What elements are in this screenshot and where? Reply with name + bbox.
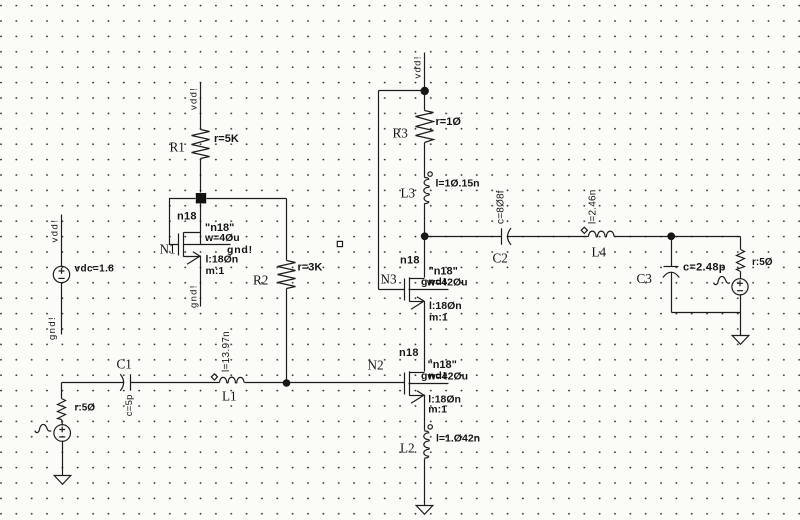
wire N2 source to L2 <box>424 395 426 431</box>
wire resistor to source PORT0 <box>62 420 63 426</box>
wire node to N1 gate <box>170 199 196 245</box>
pin marker L1 <box>211 374 217 380</box>
svg-text:r=1Ø: r=1Ø <box>436 116 462 128</box>
pin marker L4 <box>581 227 587 233</box>
wire C3 to bottom <box>671 273 673 313</box>
wire C2 to L4 <box>508 236 589 238</box>
resistor R2 <box>278 261 296 289</box>
wire junction to R3 <box>424 91 426 111</box>
wire PORT1 to return <box>740 295 742 313</box>
wire junction to gate feed <box>379 90 425 92</box>
capacitor C1 <box>130 374 132 390</box>
svg-text:n18: n18 <box>399 347 419 359</box>
svg-text:vdd!: vdd! <box>189 87 200 110</box>
transistor N3 <box>405 277 425 309</box>
wire L3 to output node <box>424 204 426 237</box>
origin marker (small open square) <box>337 241 342 246</box>
wire V0 minus to gnd! <box>61 283 63 335</box>
svg-text:n18: n18 <box>400 255 420 267</box>
svg-text:r:5Ø: r:5Ø <box>752 257 773 268</box>
wire C3 bottom to port return <box>672 312 741 314</box>
svg-text:w=42Øu: w=42Øu <box>426 276 468 288</box>
svg-text:C3: C3 <box>637 271 653 286</box>
svg-text:r=3K: r=3K <box>298 262 323 274</box>
svg-text:l=13.97n: l=13.97n <box>221 331 232 372</box>
ground symbol (L2) <box>416 506 433 515</box>
inductor L4 <box>589 231 615 237</box>
wire resistor to source PORT1 <box>740 272 742 279</box>
sine marker PORT1 <box>714 276 730 284</box>
svg-text:w=42Øu: w=42Øu <box>427 370 469 382</box>
svg-text:w=4Øu: w=4Øu <box>204 232 240 244</box>
wire L2 to ground <box>424 459 426 506</box>
svg-text:m:1: m:1 <box>428 404 447 416</box>
N3 bulk lead <box>409 289 449 291</box>
sine marker PORT0 <box>35 424 51 432</box>
svg-text:c=2.48p: c=2.48p <box>683 262 726 274</box>
resistor r:50 (PORT0) <box>58 399 66 420</box>
ground symbol (PORT0) <box>54 476 71 485</box>
wire vdd! to V0 plus <box>61 215 63 267</box>
resistor r:50 (PORT1) <box>737 250 745 272</box>
wire R3 to L3 <box>424 143 426 178</box>
svg-text:n18: n18 <box>177 211 197 223</box>
svg-text:c=8Ø8f: c=8Ø8f <box>496 190 507 224</box>
capacitor C2 <box>501 228 503 244</box>
svg-text:gnd!: gnd! <box>47 316 58 340</box>
svg-text:l=1Ø.15n: l=1Ø.15n <box>436 178 480 190</box>
junction C3/output <box>667 232 675 240</box>
wire gate feed vertical <box>378 91 380 290</box>
svg-text:vdd!: vdd! <box>50 219 61 243</box>
svg-text:vdd!: vdd! <box>413 55 424 78</box>
wire return to ground <box>740 313 742 336</box>
wire PORT0 to ground <box>62 441 64 476</box>
wire junction to C3 <box>671 237 673 267</box>
svg-text:N1: N1 <box>160 242 176 257</box>
transistor N1 <box>179 232 201 264</box>
svg-text:R3: R3 <box>393 126 409 141</box>
wire to PORT0 resistor <box>61 383 63 399</box>
svg-text:r:5Ø: r:5Ø <box>75 402 96 413</box>
svg-text:gnd!: gnd! <box>189 284 200 308</box>
wire L4 to output port <box>615 236 741 238</box>
svg-text:N3: N3 <box>381 272 398 287</box>
N1 source to gnd! stub <box>200 256 202 307</box>
wire vdd! to R1 <box>200 83 202 130</box>
svg-text:l=2.46n: l=2.46n <box>588 190 599 225</box>
inductor L3 <box>424 178 429 204</box>
pin marker L2 <box>428 425 432 429</box>
svg-text:C2: C2 <box>493 251 508 266</box>
wire to R2 top <box>286 199 288 261</box>
wire R2 to bottom net <box>286 289 288 383</box>
N2 bulk lead <box>409 383 449 385</box>
svg-text:R2: R2 <box>253 273 268 288</box>
svg-text:L3: L3 <box>401 186 416 201</box>
svg-text:R1: R1 <box>170 140 185 155</box>
wire node to N3 drain <box>424 237 426 278</box>
wire N3 source to N2 drain <box>424 302 426 372</box>
junction vdd!/R3/N3 gate feed <box>421 87 429 95</box>
wire port1 to C1 <box>62 382 124 384</box>
node: square junction at R1/N1/R2 <box>196 193 206 203</box>
transistor N2 <box>405 371 425 403</box>
wire C1 to L1 <box>131 382 220 384</box>
wire node to N1 drain <box>200 204 202 233</box>
wire R1 to node <box>200 159 202 193</box>
wire vdd! to junction <box>424 53 426 91</box>
port source PORT0 <box>54 425 71 442</box>
wire L1 to N2 gate <box>245 382 405 384</box>
wire gate feed to N3 gate <box>379 289 405 291</box>
resistor R1 <box>192 130 210 159</box>
svg-text:m:1: m:1 <box>206 265 225 277</box>
wire node to C2 <box>425 236 502 238</box>
N1 drain stub <box>200 233 202 245</box>
resistor R3 <box>416 111 434 143</box>
ground symbol (PORT1) <box>732 336 749 345</box>
junction R2/bottom wire <box>283 379 291 387</box>
inductor L1 <box>220 377 245 383</box>
junction L3/C2/N3 drain <box>421 232 429 240</box>
svg-text:L1: L1 <box>222 389 237 404</box>
svg-text:l:18Øn: l:18Øn <box>429 300 462 312</box>
svg-text:l=1.Ø42n: l=1.Ø42n <box>436 432 480 444</box>
wire to PORT1 resistor <box>740 237 742 250</box>
inductor L2 <box>424 431 429 458</box>
svg-text:C1: C1 <box>117 357 132 372</box>
svg-text:m:1: m:1 <box>429 311 448 323</box>
svg-text:N2: N2 <box>368 358 384 373</box>
svg-text:L4: L4 <box>592 244 607 259</box>
svg-text:r=5K: r=5K <box>214 133 239 145</box>
N1 bulk lead <box>184 244 231 246</box>
svg-text:vdc=1.8: vdc=1.8 <box>75 264 115 275</box>
svg-text:l:18Øn: l:18Øn <box>206 254 239 266</box>
port source PORT1 <box>732 279 748 295</box>
wire node to R2 <box>207 198 287 200</box>
capacitor C3 <box>663 267 679 278</box>
svg-text:c=5p: c=5p <box>124 394 135 416</box>
pin marker L3 <box>428 172 432 176</box>
svg-text:L2: L2 <box>400 441 415 456</box>
dc voltage source V0 <box>53 266 69 282</box>
